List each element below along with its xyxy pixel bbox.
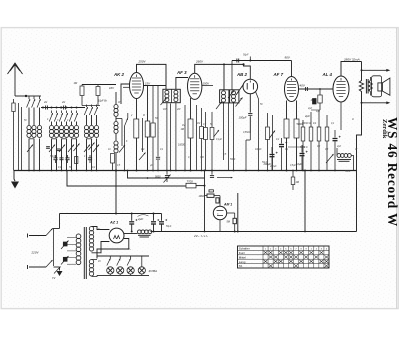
svg-text:0,5µF: 0,5µF — [290, 165, 297, 167]
node band bus junction 2 — [60, 107, 62, 109]
trimmer Tb2 — [68, 145, 74, 153]
svg-text:260V: 260V — [195, 60, 204, 64]
trimmer Tb1 — [49, 145, 55, 153]
svg-text:WS 46 Record W: WS 46 Record W — [385, 117, 400, 227]
filter choke — [138, 230, 142, 234]
transformer T1 secondary LT — [89, 260, 93, 264]
wire IFT2 down3 — [228, 103, 230, 171]
svg-text:4V/BA: 4V/BA — [149, 269, 158, 273]
tube AF3 — [188, 73, 202, 99]
svg-text:aM: aM — [62, 102, 65, 104]
svg-text:TA: TA — [239, 264, 243, 268]
resistor AL4 grid leak — [319, 89, 321, 95]
wire link al4 area — [311, 109, 320, 111]
dial lamp 2 — [117, 259, 121, 266]
tuning coil Lb2 — [56, 111, 58, 114]
resistor R-in — [13, 99, 15, 103]
svg-text:50pF: 50pF — [243, 54, 249, 57]
svg-text:Ω: Ω — [352, 119, 354, 121]
resistor R7700 — [186, 183, 196, 188]
antenna coil L1 — [28, 96, 30, 99]
tuning coil Lb6 — [76, 111, 78, 114]
resistor AL4 dark — [313, 99, 317, 105]
resistor AK2 screen2 — [152, 86, 154, 124]
wire plate to field — [361, 62, 363, 71]
IF transformer 2 — [220, 90, 229, 103]
capacitor series C-ant2 — [63, 106, 65, 110]
wire L-line — [67, 171, 186, 187]
wire AF3 screen line — [202, 85, 213, 87]
svg-text:50pF: 50pF — [50, 156, 56, 158]
wave switch contact b5 — [69, 113, 72, 122]
wire lamp feed left — [92, 259, 98, 261]
trimmer Tc1 — [84, 145, 90, 153]
trimmer Tc3 — [89, 143, 95, 151]
field coil resistor — [359, 70, 363, 103]
wire AK2 grid — [121, 84, 130, 104]
svg-text:AF 7: AF 7 — [273, 72, 284, 77]
svg-text:M: M — [143, 115, 145, 117]
wire mains up — [59, 214, 61, 229]
antenna — [8, 63, 23, 74]
wire y178 line — [128, 171, 205, 179]
resistor R-m2 — [211, 112, 213, 127]
wire AZ1 cathode — [124, 233, 138, 235]
wire link af7 area — [288, 146, 305, 148]
resistor AK2 cathode — [136, 99, 138, 120]
fuse Si2 — [63, 257, 67, 261]
osc switch contact c1 — [84, 107, 87, 115]
capacitor C-el1 — [271, 147, 273, 154]
wire antenna to junction — [15, 95, 26, 97]
capacitor C-el psu2 — [153, 214, 155, 221]
ground (chassis, left) — [14, 171, 15, 182]
wire detector line — [232, 60, 292, 62]
capacitor C-el3 — [301, 145, 303, 153]
capacitor C-100pF — [249, 94, 251, 113]
wire left branch3 — [21, 107, 23, 171]
svg-text:0,5MΩ: 0,5MΩ — [243, 132, 250, 134]
resistor AL4 b3 — [318, 110, 320, 127]
trimmer Ta1 — [27, 145, 33, 153]
svg-text:aM: aM — [44, 102, 47, 104]
node band bus junction 1 — [42, 107, 44, 109]
wire B+ bottom line — [151, 231, 357, 233]
node AL4 grid node — [319, 88, 321, 90]
oscillator padder chain — [115, 92, 117, 104]
wire HT bottom to AZ1 — [92, 242, 110, 253]
svg-text:AL 4: AL 4 — [322, 72, 333, 77]
wire AK2 plate to IFT1 — [137, 64, 167, 89]
capacitor C100pF b — [211, 171, 213, 175]
capacitor Cb2 — [61, 155, 63, 158]
mains terminal top — [29, 235, 46, 237]
wire speaker terminal top — [362, 69, 387, 71]
antenna band switch contact 2 — [32, 99, 35, 108]
trimmer Tc2 — [93, 145, 99, 153]
trimmer Tb4 — [74, 144, 80, 152]
tube AK2 — [130, 73, 144, 99]
capacitor AK2 bypass — [157, 86, 159, 157]
wire IFT1 sec down2 — [175, 103, 177, 171]
svg-text:2µF: 2µF — [307, 108, 313, 110]
resistor AM1 top small — [209, 190, 213, 192]
node band taps — [51, 107, 53, 109]
wire AM1 right — [227, 212, 235, 214]
wire IFT2 down1 — [223, 103, 225, 160]
wave switch contact b3 — [59, 113, 62, 122]
capacitor Cb5 — [57, 148, 61, 150]
antenna coil L3 — [39, 96, 41, 99]
wire am1 arrow — [217, 177, 233, 179]
capacitor Cc1 — [89, 155, 91, 158]
trimmer Tb3 — [59, 145, 65, 153]
wire lamp bus — [97, 255, 149, 257]
speaker frame — [372, 76, 382, 97]
trimmer IFT1 — [161, 98, 167, 105]
wire AB2 to IFT2 — [236, 85, 243, 96]
capacitor Cb3 — [67, 155, 69, 158]
svg-text:2µF: 2µF — [336, 146, 342, 148]
tone switch — [326, 154, 334, 163]
switch position table — [238, 246, 330, 268]
svg-text:150V: 150V — [203, 81, 211, 85]
tube AZ1 — [109, 228, 124, 243]
capacitor C-el psu1 — [131, 214, 133, 221]
capacitor Cb4 — [46, 146, 50, 148]
wire AF7 to AL4 grid — [299, 88, 334, 90]
volume pot arrow — [236, 98, 243, 107]
svg-text:10µF 6b: 10µF 6b — [98, 100, 107, 103]
wire band bus — [41, 107, 85, 109]
wave switch contact b6 — [74, 113, 77, 122]
capacitor C-det — [236, 59, 238, 63]
wire osc top link — [82, 105, 100, 107]
wire AK2 aux — [142, 118, 144, 152]
page inner edge line — [396, 28, 398, 309]
wire AM1 in — [219, 196, 221, 207]
wire IFT1 to AF3 grid — [176, 78, 188, 90]
wire feed down — [115, 171, 117, 214]
svg-text:1µF: 1µF — [316, 111, 321, 113]
capacitor Cb1 — [55, 155, 57, 158]
fuse Si1 — [63, 242, 67, 246]
IF transformer 1 — [163, 89, 180, 102]
svg-text:0,1: 0,1 — [141, 148, 145, 151]
wire main chassis bus — [14, 170, 357, 172]
oscillator coil Lc3 — [96, 105, 98, 108]
wire det load — [249, 133, 251, 140]
svg-text:Lang: Lang — [239, 260, 246, 264]
tuning coil Lb5 — [71, 111, 73, 114]
svg-text:220V: 220V — [31, 251, 40, 255]
trimmer IFT2 a — [216, 102, 222, 110]
svg-text:Mittel: Mittel — [239, 255, 247, 259]
resistor AL4 b2 — [310, 112, 312, 127]
resistor AL4 b4 — [326, 115, 328, 127]
wire am1 drop — [204, 171, 206, 232]
transformer T1 secondary HT — [89, 227, 93, 231]
wire psu top line — [60, 213, 162, 215]
transformer T1 core — [83, 227, 85, 279]
resistor R-avc2 — [97, 85, 99, 87]
wire right loop — [304, 171, 306, 232]
svg-text:5000: 5000 — [345, 171, 351, 173]
wire AF3 aux1 — [184, 105, 186, 171]
trimmer osc — [119, 145, 125, 153]
resistor AK2 screen — [147, 86, 149, 122]
svg-text:AB 2: AB 2 — [236, 72, 248, 77]
svg-text:10000: 10000 — [178, 144, 185, 147]
capacitor C-el psu3 — [161, 214, 163, 221]
svg-text:AK 2: AK 2 — [113, 72, 125, 77]
wire AB2 top — [244, 64, 251, 79]
wire AL4 plate — [341, 62, 362, 77]
capacitor series C-ant1 — [45, 106, 47, 110]
resistor R-m1 — [205, 112, 207, 127]
wire avc top — [82, 84, 116, 86]
tube AB2 — [243, 79, 258, 94]
output transformer winding — [369, 81, 373, 92]
svg-text:0,1µF: 0,1µF — [216, 139, 223, 141]
wire det aux2 — [272, 115, 274, 171]
antenna coil L2 — [33, 96, 35, 99]
svg-text:50000 Ω: 50000 Ω — [302, 123, 311, 125]
svg-text:1M: 1M — [197, 123, 200, 125]
trimmer R-m3 — [214, 130, 220, 137]
antenna band switch contact 3 — [37, 99, 40, 108]
resistor R-det — [267, 113, 269, 127]
svg-text:50µF: 50µF — [166, 226, 172, 228]
resistor AF7 r2 — [296, 101, 298, 120]
tuning coil Lb1 — [51, 111, 53, 114]
wire coil tie bars — [29, 138, 34, 140]
tube AL4 — [333, 76, 349, 102]
output transformer core — [365, 79, 367, 94]
wave switch contact b4 — [64, 113, 67, 122]
svg-text:AF 3: AF 3 — [176, 70, 187, 75]
svg-text:AZ 1: AZ 1 — [109, 221, 118, 225]
wire mains to primary — [54, 266, 60, 268]
node antenna junction — [25, 95, 27, 97]
svg-text:2µF: 2µF — [304, 114, 310, 118]
svg-text:Kurz: Kurz — [239, 251, 246, 255]
osc switch contact c3 — [94, 107, 97, 115]
trimmer IFT2 b — [228, 91, 234, 99]
wire IFT2 down2 — [233, 103, 235, 171]
wire HT top to AZ1 — [92, 227, 110, 230]
wave switch contact b1 — [49, 113, 52, 122]
resistor R-af7-low — [292, 171, 294, 178]
tuning coil Lb3 — [61, 111, 63, 114]
ground T2 — [59, 267, 61, 271]
svg-text:5000 Ω: 5000 Ω — [300, 147, 308, 149]
svg-text:2V~ ∿∿∿: 2V~ ∿∿∿ — [193, 234, 208, 238]
capacitor C-50pF stub — [249, 57, 251, 61]
svg-text:5000: 5000 — [230, 159, 236, 161]
dial lamp 4 — [141, 256, 143, 267]
tube AF7 — [285, 77, 299, 102]
resistor AF3 cathode — [190, 98, 192, 119]
oscillator coil Lc1 — [86, 105, 88, 108]
wire taps — [67, 237, 76, 239]
resistor AM1 series — [207, 194, 214, 197]
resistor AM1 grid — [216, 198, 219, 203]
resistor AF3 screen — [201, 108, 203, 126]
dial lamp 3 — [127, 259, 131, 266]
svg-text:AM 1: AM 1 — [223, 203, 232, 207]
resistor AM1 load — [233, 218, 236, 223]
wire lamp return — [97, 274, 149, 276]
wire AL4 cathode — [340, 102, 342, 130]
svg-text:4V: 4V — [98, 260, 101, 263]
resistor R-avc1 1M — [81, 85, 83, 87]
svg-text:200µF: 200µF — [269, 166, 277, 168]
svg-text:10µF: 10µF — [296, 162, 302, 166]
wire AF7 plate — [291, 61, 293, 77]
trimmer AK2 — [139, 153, 146, 161]
trimmer det — [270, 131, 276, 139]
tube AM1 — [213, 206, 226, 219]
wave switch contact b2 — [54, 113, 57, 122]
osc switch — [125, 118, 128, 126]
capacitor C-el4 — [334, 130, 336, 138]
tuning coil Lb4 — [66, 111, 68, 114]
capacitor C-coup — [305, 87, 307, 91]
mains switch — [46, 229, 53, 236]
svg-text:2µF: 2µF — [137, 217, 143, 221]
resistor AF7 r1 — [286, 101, 288, 120]
svg-text:100pF: 100pF — [255, 149, 262, 151]
antenna band switch contact 1 — [27, 99, 30, 108]
resistor R-osc — [112, 148, 114, 153]
loudspeaker — [378, 83, 382, 91]
wire osc tap — [116, 118, 122, 120]
wire AF3 aux2 — [196, 105, 198, 171]
wire L-line2 — [196, 185, 205, 187]
transformer T1 primary — [76, 234, 81, 239]
svg-text:50µF: 50µF — [262, 162, 268, 164]
wire AK2 screen line — [144, 85, 167, 87]
wire am1 vert2 — [237, 193, 239, 232]
capacitor C200pF — [166, 171, 168, 175]
capacitor C-el2 — [281, 138, 283, 144]
svg-text:1M: 1M — [182, 125, 185, 127]
mains terminal bottom — [29, 266, 46, 268]
svg-text:T2: T2 — [52, 276, 56, 280]
svg-text:7700: 7700 — [187, 179, 194, 183]
svg-text:280V 32mA: 280V 32mA — [343, 58, 360, 62]
wire IFT1 sec down1 — [166, 103, 168, 171]
wire AF3 plate to IFT2 — [195, 64, 244, 73]
tone coil — [337, 154, 341, 158]
wire field to psu — [357, 103, 362, 232]
svg-text:5000: 5000 — [155, 176, 161, 179]
wire speaker terminal bottom — [362, 102, 387, 104]
svg-text:250V: 250V — [138, 60, 147, 64]
wire left branch2 — [18, 103, 20, 171]
heater loop — [97, 239, 129, 259]
dial lamp 1 — [107, 259, 111, 266]
resistor R-b — [75, 157, 78, 164]
wire det aux — [256, 92, 259, 100]
svg-text:100pF: 100pF — [239, 116, 247, 120]
oscillator coil Lc2 — [91, 105, 93, 108]
wire mid vertical a — [170, 104, 172, 171]
osc switch contact c2 — [89, 107, 92, 115]
svg-text:4V~: 4V~ — [127, 248, 132, 251]
svg-text:1MΩ: 1MΩ — [199, 195, 204, 198]
resistor AL4 b1 — [302, 120, 304, 127]
wire antenna fan — [26, 95, 41, 97]
wire AM1 bottom — [219, 220, 221, 232]
